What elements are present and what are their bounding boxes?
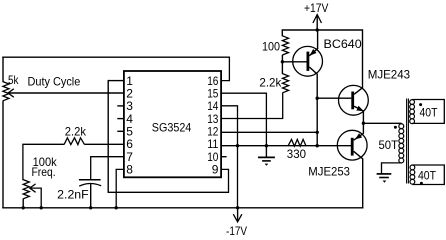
node +17V junction [316, 28, 319, 31]
svg-text:+17V: +17V [304, 1, 328, 15]
transistor Q2 base bar [351, 92, 354, 110]
wire 100k wiper to rail [30, 188, 41, 208]
transformer T1 secondary winding top 40T [410, 100, 415, 105]
wire 100 to 2.2k lead [281, 55, 283, 74]
resistor R4 100 [282, 36, 288, 55]
wire pin 6 left lead to 100k pot [23, 144, 65, 180]
wire emitters node to primary [363, 122, 401, 124]
svg-text:2.2nF: 2.2nF [57, 187, 89, 201]
wire Q2 emitter down to node [362, 111, 364, 124]
wire +17V rail to MJE243 collector [362, 29, 364, 87]
resistor R5 2.2k (base) [283, 74, 289, 93]
wire pin 1 stub [108, 80, 124, 82]
svg-text:100: 100 [262, 40, 280, 54]
svg-text:Duty Cycle: Duty Cycle [28, 74, 81, 88]
svg-text:8: 8 [126, 163, 133, 177]
pin 5 stub [117, 130, 124, 132]
pin 3 stub [117, 105, 124, 107]
node 330 junction [316, 144, 319, 147]
node secondary-bottom phasing dot [420, 182, 423, 185]
transformer T1 primary winding 50T [399, 124, 404, 129]
wire Q1 collector bus down [316, 74, 318, 146]
pin 4 stub [117, 118, 124, 120]
transistor Q2 emitter arrow (NPN) [356, 106, 363, 111]
wire driver node to MJE243 base [317, 97, 351, 99]
power +17V arrow [313, 15, 322, 23]
svg-text:Freq.: Freq. [32, 165, 56, 179]
transistor Q3 emitter diagonal [354, 133, 364, 140]
wire rail corner to 100 [281, 29, 283, 36]
svg-text:330: 330 [287, 147, 307, 161]
svg-text:SG3524: SG3524 [152, 120, 192, 134]
capacitor C1 2.2nF bottom plate [79, 183, 101, 186]
transistor Q2 MJE243 circle [339, 85, 369, 115]
transistor Q2 emitter diagonal [354, 106, 363, 111]
power -17V arrow [233, 214, 242, 222]
potentiometer R3 wiper arrow [30, 184, 36, 192]
node base junction 100/2.2k [281, 60, 284, 63]
node rail-capacitor [89, 206, 92, 209]
svg-text:5k: 5k [8, 73, 19, 87]
transistor Q1 emitter diagonal [309, 48, 318, 56]
node pin11-pin14 junction [236, 144, 239, 147]
capacitor C1 2.2nF top plate [79, 179, 101, 181]
wire secondary-bottom leads [413, 165, 445, 185]
node rail-minus17V [236, 206, 239, 209]
wire cap bottom to rail [90, 184, 92, 209]
wire Q3 emitter up to node [362, 123, 364, 134]
svg-text:40T: 40T [420, 105, 439, 119]
node rail-100k-bottom [22, 206, 25, 209]
svg-text:MJE253: MJE253 [308, 164, 350, 178]
node secondary-top phasing dot [419, 103, 422, 106]
wire pin 9 under-chip return [108, 169, 229, 192]
node rail-pin8 [115, 206, 118, 209]
wire secondary-top leads [412, 100, 444, 124]
wire pin 11 to MJE253 base [221, 145, 351, 147]
node primary phasing dot [394, 126, 397, 129]
wire +17V arrow stem [316, 15, 318, 30]
wire 5k wiper to IC pin 2 [9, 92, 124, 94]
op-amp/IC U1 SG3524 body [124, 71, 221, 177]
wire pin 13 to 2.2k bottom [221, 93, 283, 119]
wire pin 6 right lead [84, 143, 124, 145]
transistor Q3 collector diagonal [354, 151, 363, 159]
wire Q1 emitter to +17V [317, 29, 319, 48]
svg-text:MJE243: MJE243 [368, 68, 411, 82]
transistor Q3 base bar [351, 138, 354, 156]
svg-text:2.2k: 2.2k [259, 76, 282, 90]
wire pin 7 to capacitor [91, 157, 124, 180]
wire pin 8 to -17V rail [116, 169, 124, 208]
resistor R2 2.2k (timing) [64, 138, 84, 145]
transistor Q1 emitter arrow (PNP) [310, 49, 317, 56]
svg-text:BC640: BC640 [324, 37, 363, 51]
transistor Q1 base bar [307, 52, 310, 71]
ground G2 transformer center [377, 173, 392, 175]
wire pin 12 to driver node [221, 131, 317, 133]
transistor Q3 emitter arrow (PNP) [355, 133, 362, 139]
node driver-base junction [316, 97, 319, 100]
transistor Q1 BC640 circle [293, 46, 323, 76]
potentiometer R1 5k body [3, 82, 9, 101]
transistor Q1 collector diagonal [309, 67, 317, 74]
wire 100k bottom to rail [22, 199, 24, 209]
svg-text:40T: 40T [418, 168, 437, 182]
ground G1 under 330 [265, 146, 267, 158]
wire primary bottom lead [382, 163, 402, 174]
svg-text:50T: 50T [379, 138, 399, 152]
wire left rail lower segment [2, 101, 4, 209]
wire top rail from left loop to pin 16 riser [2, 56, 229, 58]
svg-text:2.2k: 2.2k [65, 125, 87, 139]
potentiometer R1 wiper arrow [8, 89, 14, 97]
wire pin 15 to pin 13 riser [221, 93, 266, 146]
wire pin1/pin7 vertical bus [107, 80, 109, 192]
wire junction to BC640 base [282, 61, 307, 63]
wire +17V rail [282, 29, 362, 31]
wire pin 14 riser to -17V rail [221, 106, 237, 209]
node pin12 junction [316, 131, 319, 134]
wire pin 16 riser to top rail [221, 57, 229, 81]
wire -17V arrow stem [237, 208, 239, 221]
node rail-100k-wiper [40, 206, 43, 209]
transistor Q2 collector diagonal [354, 87, 363, 94]
node emitters junction [362, 122, 365, 125]
pin 10 stub [221, 156, 227, 158]
transformer T1 core [406, 99, 408, 184]
wire -17V rail [2, 207, 363, 209]
transformer T1 secondary winding bottom 40T [410, 165, 415, 170]
potentiometer R3 100k body [23, 180, 29, 199]
resistor R6 330 [288, 139, 306, 146]
wire Q3 collector to -17V rail [362, 158, 364, 208]
wire left rail upper segment [2, 57, 4, 83]
transistor Q3 MJE253 circle [337, 130, 367, 160]
svg-text:-17V: -17V [226, 224, 247, 238]
node pin11-ground junction [265, 144, 268, 147]
svg-text:9: 9 [212, 163, 219, 177]
